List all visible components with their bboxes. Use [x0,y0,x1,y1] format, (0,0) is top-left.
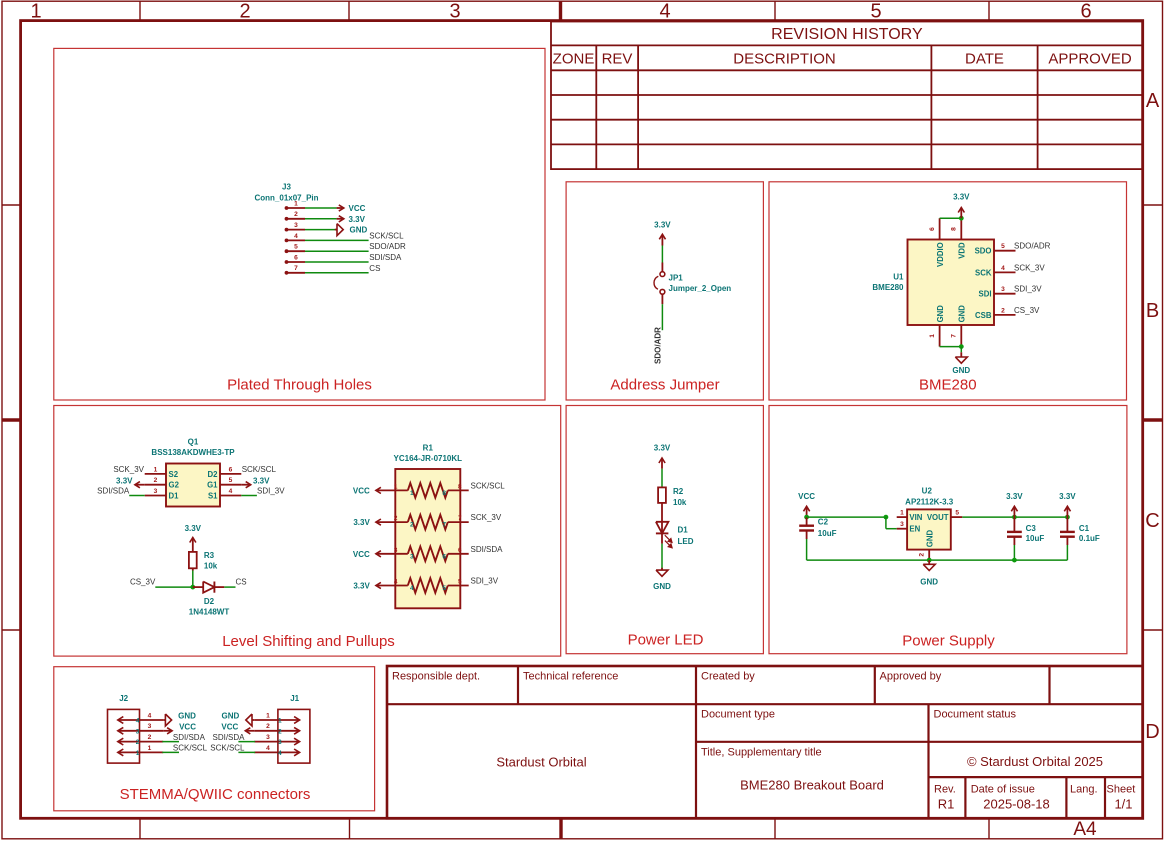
svg-text:Document type: Document type [701,709,775,721]
svg-text:SCK_3V: SCK_3V [1014,263,1045,272]
svg-text:5: 5 [294,244,298,251]
svg-text:Sheet: Sheet [1107,784,1136,796]
svg-text:S2: S2 [169,470,179,479]
svg-text:7: 7 [442,522,446,529]
junction [959,344,964,349]
wire [162,741,179,743]
svg-text:3.3V: 3.3V [654,443,671,452]
svg-text:1: 1 [154,466,158,473]
power VCC [221,723,254,734]
svg-text:3.3V: 3.3V [253,477,270,486]
svg-text:SDI/SDA: SDI/SDA [97,487,130,496]
svg-text:VCC: VCC [353,550,370,559]
wire [960,347,962,353]
wire [241,495,257,497]
svg-text:U1: U1 [893,272,904,281]
svg-text:SDI/SDA: SDI/SDA [173,733,206,742]
svg-text:5: 5 [458,579,462,586]
svg-text:Approved by: Approved by [880,671,942,683]
svg-text:CS_3V: CS_3V [130,578,156,587]
svg-text:4: 4 [294,233,298,240]
svg-text:SCK/SCL: SCK/SCL [210,744,245,753]
svg-text:VDDIO: VDDIO [936,242,945,267]
power VCC [337,204,366,213]
svg-text:6: 6 [294,254,298,261]
power 3.3V [376,582,381,588]
svg-text:Conn_01x07_Pin: Conn_01x07_Pin [254,193,318,202]
junction [1065,515,1070,520]
power VCC [376,487,381,493]
svg-text:CS_3V: CS_3V [1014,306,1040,315]
svg-text:VDD: VDD [958,242,967,259]
svg-text:G1: G1 [207,481,218,490]
power 3.3V [116,477,145,488]
wire [807,516,886,518]
junction [190,585,195,590]
wire [192,571,194,588]
svg-text:SDO/ADR: SDO/ADR [1014,242,1051,251]
svg-text:CS: CS [236,578,247,587]
svg-text:C3: C3 [1026,524,1037,533]
svg-text:Lang.: Lang. [1070,784,1098,796]
svg-text:2: 2 [154,477,158,484]
svg-text:SCK/SCL: SCK/SCL [471,481,506,490]
svg-text:1: 1 [410,490,414,497]
svg-text:2: 2 [919,553,926,557]
svg-text:J1: J1 [290,694,299,703]
svg-text:5: 5 [955,510,959,517]
wire [224,586,235,588]
svg-text:6: 6 [229,466,233,473]
svg-text:5: 5 [870,1,881,23]
svg-text:SDO: SDO [975,247,992,256]
svg-text:4: 4 [278,750,282,757]
svg-text:3.3V: 3.3V [353,582,370,591]
svg-text:3.3V: 3.3V [953,193,970,202]
svg-text:8: 8 [458,483,462,490]
svg-text:SCK: SCK [975,268,992,277]
svg-text:STEMMA/QWIIC connectors: STEMMA/QWIIC connectors [120,786,311,803]
connector J3 [254,183,318,275]
svg-text:4: 4 [148,712,152,719]
svg-text:Responsible dept.: Responsible dept. [392,671,480,683]
wire [962,516,1067,518]
LED D1 [656,522,694,548]
wire [305,229,337,231]
svg-text:SDI_3V: SDI_3V [257,487,285,496]
svg-text:Title, Supplementary title: Title, Supplementary title [701,747,822,759]
svg-text:DATE: DATE [965,51,1004,68]
svg-text:5: 5 [442,585,446,592]
svg-text:1: 1 [294,200,298,207]
svg-text:Date of issue: Date of issue [971,784,1035,796]
svg-text:1: 1 [394,483,398,490]
svg-text:SDI: SDI [979,290,992,299]
svg-text:2: 2 [278,728,282,735]
svg-text:6: 6 [442,553,446,560]
power 3.3V [185,524,202,552]
ground [653,568,671,591]
power VCC [376,551,381,557]
wire [661,469,663,488]
svg-text:SDI/SDA: SDI/SDA [212,733,245,742]
svg-text:7: 7 [458,515,462,522]
svg-text:VCC: VCC [798,492,815,501]
ground [920,560,938,586]
svg-text:1: 1 [30,1,41,23]
wire [940,346,962,348]
svg-text:3: 3 [449,1,460,23]
svg-text:4: 4 [659,1,670,23]
svg-text:SDI/SDA: SDI/SDA [471,545,504,554]
svg-text:Technical reference: Technical reference [523,671,618,683]
svg-text:SCK/SCL: SCK/SCL [242,465,277,474]
svg-text:1/1: 1/1 [1114,797,1132,812]
wire [661,304,663,330]
svg-text:C: C [1145,510,1159,532]
svg-text:VIN: VIN [909,513,922,522]
svg-text:Plated Through Holes: Plated Through Holes [227,377,372,394]
svg-text:BME280: BME280 [919,377,977,394]
svg-text:VCC: VCC [179,723,196,732]
svg-text:VCC: VCC [221,723,238,732]
svg-text:GND: GND [178,711,196,720]
svg-text:3.3V: 3.3V [1006,492,1023,501]
svg-text:4: 4 [410,585,414,592]
svg-text:4: 4 [394,579,398,586]
svg-text:SDI_3V: SDI_3V [1014,285,1042,294]
svg-text:SCK_3V: SCK_3V [113,465,144,474]
svg-text:2: 2 [266,723,270,730]
svg-text:Power Supply: Power Supply [902,633,995,650]
svg-text:0.1uF: 0.1uF [1079,534,1100,543]
svg-text:3: 3 [148,723,152,730]
wire [661,544,663,569]
svg-text:DESCRIPTION: DESCRIPTION [733,51,836,68]
jumper JP1 [654,263,731,305]
svg-text:Stardust Orbital: Stardust Orbital [496,755,586,770]
junction [884,515,889,520]
svg-text:1: 1 [278,718,282,725]
regulator U2 AP2112K-3.3 [897,487,963,560]
connector J1 [254,694,310,763]
power 3.3V [1006,492,1023,517]
svg-text:1: 1 [148,745,152,752]
svg-text:R3: R3 [204,551,215,560]
svg-text:B: B [1146,300,1159,322]
svg-text:VCC: VCC [353,486,370,495]
wire [1013,545,1015,560]
svg-text:1: 1 [900,510,904,517]
ground [952,352,970,375]
svg-text:6: 6 [1080,1,1091,23]
svg-text:VCC: VCC [349,204,366,213]
wire [155,586,193,588]
capacitor C1 [1060,517,1100,545]
power 3.3V [337,215,366,224]
svg-text:2: 2 [1001,307,1005,314]
svg-text:Created by: Created by [701,671,755,683]
svg-text:Address Jumper: Address Jumper [610,377,719,394]
svg-text:8: 8 [951,227,958,231]
svg-text:1: 1 [136,750,140,757]
power 3.3V [241,477,270,488]
svg-text:3: 3 [278,739,282,746]
svg-text:10uF: 10uF [818,529,837,538]
svg-text:REV: REV [602,51,633,68]
svg-text:© Stardust Orbital 2025: © Stardust Orbital 2025 [967,754,1103,769]
svg-text:SDI/SDA: SDI/SDA [369,253,402,262]
diode D2 [189,582,230,617]
svg-text:D1: D1 [678,525,689,534]
wire [305,218,337,220]
power GND [335,224,368,236]
svg-text:4: 4 [229,488,233,495]
svg-text:Document status: Document status [934,709,1017,721]
svg-text:ZONE: ZONE [553,51,595,68]
svg-text:SCK_3V: SCK_3V [471,513,502,522]
svg-text:CS: CS [369,264,380,273]
svg-text:LED: LED [678,537,694,546]
svg-text:2: 2 [148,734,152,741]
svg-text:1: 1 [929,334,936,338]
wire [661,246,663,263]
wire [885,517,887,529]
svg-text:Level Shifting and Pullups: Level Shifting and Pullups [222,633,395,650]
svg-text:6: 6 [458,547,462,554]
svg-text:BME280 Breakout Board: BME280 Breakout Board [740,778,884,793]
svg-text:4: 4 [266,745,270,752]
svg-text:5: 5 [229,477,233,484]
svg-text:SDO/ADR: SDO/ADR [653,327,662,364]
wire [806,539,808,560]
resistor network R1 [376,443,469,608]
wire [1066,545,1068,560]
svg-text:3: 3 [394,547,398,554]
svg-text:SCK/SCL: SCK/SCL [173,744,208,753]
power 3.3V [1059,492,1076,517]
svg-text:APPROVED: APPROVED [1048,51,1132,68]
svg-text:Rev.: Rev. [934,784,956,796]
svg-text:2: 2 [394,515,398,522]
svg-text:4: 4 [1001,265,1005,272]
svg-text:S1: S1 [208,492,218,501]
svg-text:2: 2 [239,1,250,23]
svg-text:10k: 10k [673,498,687,507]
svg-text:4: 4 [136,718,140,725]
capacitor C3 [1007,517,1044,545]
wire [162,751,179,753]
svg-text:3: 3 [136,728,140,735]
svg-text:SCK/SCL: SCK/SCL [369,231,404,240]
svg-text:5: 5 [1001,243,1005,250]
svg-text:3.3V: 3.3V [353,518,370,527]
svg-text:GND: GND [958,305,967,323]
svg-text:G2: G2 [169,481,180,490]
svg-text:GND: GND [920,577,938,586]
svg-text:1N4148WT: 1N4148WT [189,608,230,617]
wire [238,741,255,743]
svg-text:J2: J2 [119,694,128,703]
svg-text:Jumper_2_Open: Jumper_2_Open [669,284,732,293]
resistor R3 [189,551,218,571]
svg-text:D2: D2 [204,597,215,606]
svg-text:3: 3 [154,488,158,495]
svg-text:Power LED: Power LED [628,632,704,649]
svg-text:3.3V: 3.3V [349,215,366,224]
svg-text:D: D [1145,721,1159,743]
svg-text:GND: GND [653,582,671,591]
svg-text:3: 3 [266,734,270,741]
svg-text:R2: R2 [673,487,684,496]
svg-text:2: 2 [136,739,140,746]
svg-text:7: 7 [951,334,958,338]
junction [804,515,809,520]
svg-text:2: 2 [410,522,414,529]
svg-text:VOUT: VOUT [927,513,949,522]
resistor R2 [658,487,687,522]
junction [1012,515,1017,520]
svg-text:Q1: Q1 [188,437,199,446]
svg-text:GND: GND [926,530,935,548]
wire [305,250,369,252]
svg-text:YC164-JR-0710KL: YC164-JR-0710KL [394,454,463,463]
wire [305,207,337,209]
svg-text:2025-08-18: 2025-08-18 [983,797,1050,812]
svg-text:D1: D1 [169,492,180,501]
svg-text:EN: EN [909,525,920,534]
svg-text:1: 1 [266,712,270,719]
svg-text:3.3V: 3.3V [654,221,671,230]
svg-text:AP2112K-3.3: AP2112K-3.3 [905,497,954,506]
power VCC [163,723,196,734]
wire [305,239,369,241]
wire [940,217,962,219]
svg-text:BME280: BME280 [872,283,904,292]
junction [927,558,932,563]
wire [238,751,255,753]
power 3.3V [376,519,381,525]
svg-text:CSB: CSB [975,311,992,320]
capacitor C2 [799,517,836,539]
svg-text:3: 3 [410,553,414,560]
power GND [163,711,196,726]
svg-text:GND: GND [222,711,240,720]
svg-text:3.3V: 3.3V [185,524,202,533]
svg-text:U2: U2 [922,487,933,496]
power 3.3V [654,443,671,468]
svg-text:GND: GND [350,226,368,235]
junction [1012,558,1017,563]
svg-text:J3: J3 [282,183,291,192]
svg-text:3.3V: 3.3V [1059,492,1076,501]
wire [305,261,369,263]
svg-text:GND: GND [936,305,945,323]
svg-text:3: 3 [1001,286,1005,293]
power VCC [798,492,815,517]
connector J2 [108,694,164,763]
ic U1 BME280 [872,218,1015,346]
svg-text:6: 6 [929,227,936,231]
svg-text:10uF: 10uF [1026,534,1045,543]
svg-text:3: 3 [900,521,904,528]
svg-text:8: 8 [442,490,446,497]
wire [129,495,145,497]
svg-text:SDI_3V: SDI_3V [471,577,499,586]
wire [305,272,369,274]
svg-text:D2: D2 [208,470,219,479]
svg-text:C2: C2 [818,518,829,527]
svg-text:REVISION HISTORY: REVISION HISTORY [771,26,923,43]
svg-text:10k: 10k [204,562,218,571]
svg-text:GND: GND [952,366,970,375]
svg-text:2: 2 [294,211,298,218]
svg-text:SDO/ADR: SDO/ADR [369,242,406,251]
svg-text:A4: A4 [1073,819,1097,840]
junction [959,216,964,221]
svg-text:BSS138AKDWHE3-TP: BSS138AKDWHE3-TP [151,448,235,457]
svg-text:R1: R1 [423,443,434,452]
power 3.3V [953,193,970,219]
power 3.3V [654,221,671,246]
svg-text:3: 3 [294,222,298,229]
svg-text:R1: R1 [938,797,955,812]
wire [807,559,1068,561]
svg-text:7: 7 [294,265,298,272]
transistor Q1 [145,437,242,506]
svg-text:JP1: JP1 [669,273,684,282]
power GND [222,711,255,726]
svg-text:A: A [1146,90,1160,112]
svg-text:C1: C1 [1079,524,1090,533]
svg-text:3.3V: 3.3V [116,477,133,486]
